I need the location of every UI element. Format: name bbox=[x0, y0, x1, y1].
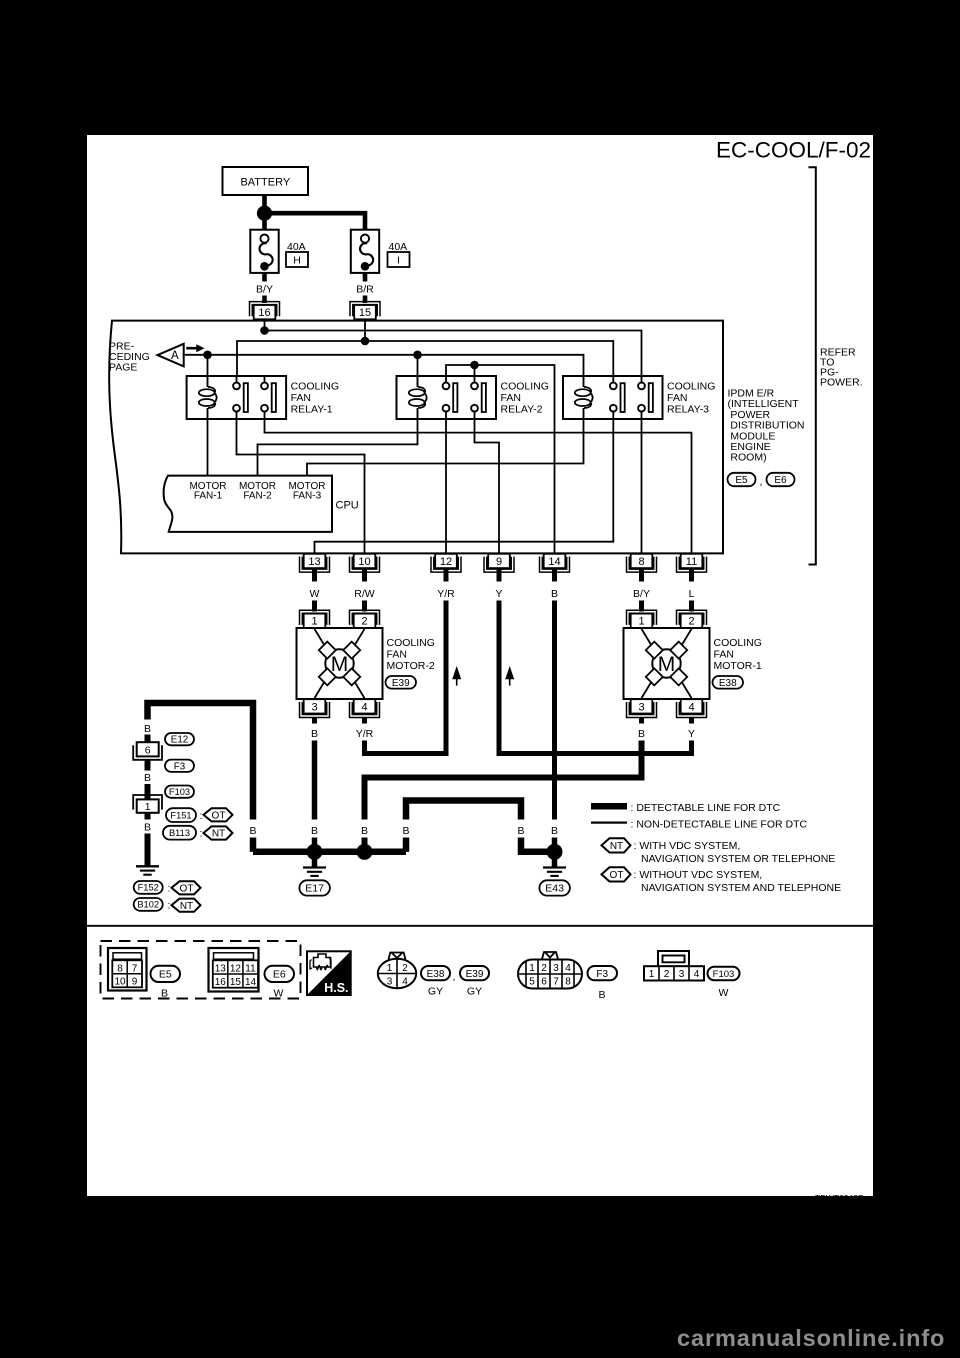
relay COOLING FAN RELAY-2 bbox=[397, 376, 549, 419]
wire motor-1 pin3 to riser x364.5 bbox=[365, 741, 642, 820]
relay COOLING FAN RELAY-3 bbox=[563, 376, 715, 419]
svg-text:6: 6 bbox=[541, 977, 547, 988]
node A-line junction relay-1 coil bbox=[203, 351, 212, 360]
wire stub E43 riser to dot bbox=[552, 838, 558, 852]
relay COOLING FAN RELAY-1 bbox=[187, 376, 339, 419]
wire B motor-1 pin3 to label bbox=[639, 717, 644, 724]
svg-text:E38: E38 bbox=[427, 969, 445, 980]
label wire color L bbox=[689, 588, 695, 600]
symbol NT for B102 bbox=[172, 899, 201, 912]
svg-text:4: 4 bbox=[694, 969, 700, 980]
svg-text::: : bbox=[200, 828, 203, 840]
wire B motor-2 pin3 to label bbox=[312, 717, 317, 724]
label wire color B at riser 406 bbox=[402, 825, 409, 837]
node A-line junction relay-2 coil bbox=[413, 351, 422, 360]
connector ref E5 bbox=[728, 473, 756, 486]
pin 1 of motor MOTOR-1 bbox=[627, 610, 657, 628]
svg-text::: : bbox=[168, 883, 171, 895]
wire pin15 bus to relay-3 contact1 bbox=[237, 319, 613, 383]
wire relay-1 coil to CPU MOTOR FAN-1 bbox=[207, 418, 209, 476]
connector face E6 bbox=[209, 948, 259, 992]
wire B/Y pin8 to label bbox=[639, 568, 644, 582]
battery bbox=[223, 167, 309, 195]
wire Y/R label to motor-2 pin4 bbox=[365, 601, 447, 754]
separator line bbox=[87, 925, 873, 927]
svg-text:Y: Y bbox=[495, 588, 502, 600]
svg-text:NAVIGATION SYSTEM OR TELEPHONE: NAVIGATION SYSTEM OR TELEPHONE bbox=[641, 853, 835, 865]
wire W label to motor-2 pin1 bbox=[312, 601, 317, 612]
svg-text:E39: E39 bbox=[392, 678, 410, 689]
svg-text:3: 3 bbox=[553, 963, 559, 974]
label wire color Y/R motor-2 pin4 bbox=[356, 728, 374, 740]
label wire color Y bbox=[495, 588, 502, 600]
connector ref E39 bbox=[386, 676, 417, 689]
svg-text:MOTOR-2: MOTOR-2 bbox=[387, 660, 435, 672]
svg-text:11: 11 bbox=[245, 963, 256, 974]
comma bbox=[760, 476, 763, 488]
legend detectable line bbox=[591, 802, 781, 814]
comma between E38 E39 bbox=[453, 971, 456, 983]
svg-text:E38: E38 bbox=[719, 678, 737, 689]
connector 1 (F103) bbox=[133, 795, 162, 813]
wire B pin14 to label bbox=[552, 568, 557, 582]
fuse H 40A bbox=[250, 230, 308, 273]
wire A-line to relay coils bbox=[185, 355, 584, 388]
svg-text:8: 8 bbox=[565, 977, 571, 988]
svg-text:1: 1 bbox=[145, 801, 151, 813]
wire fuse H to B/Y label bbox=[262, 273, 267, 282]
svg-text:2: 2 bbox=[361, 616, 367, 628]
svg-text:RELAY-1: RELAY-1 bbox=[291, 404, 333, 416]
connector pin 14 bbox=[540, 554, 570, 572]
label wire color B at motor-2 pin3 riser bbox=[311, 825, 318, 837]
wire B/Y label to motor-1 pin1 bbox=[639, 601, 644, 612]
svg-text:13: 13 bbox=[215, 963, 227, 974]
connector ref E5 bottom bbox=[151, 966, 181, 1000]
wire connector 1 to B label bbox=[145, 813, 151, 820]
wire relay-2 contact2 to pin 9 bbox=[475, 411, 500, 554]
symbol OT for F152 bbox=[172, 881, 201, 894]
connector view group E5/E6 dashed box bbox=[101, 941, 301, 999]
wire ground bus E17 bbox=[253, 849, 406, 856]
svg-text:1: 1 bbox=[311, 616, 317, 628]
svg-text:E6: E6 bbox=[774, 475, 787, 486]
svg-text:1: 1 bbox=[649, 969, 655, 980]
label wire color B at riser 364.5 bbox=[361, 825, 368, 837]
wire relay-1 contact2 to pin 11 bbox=[265, 411, 692, 554]
wire bus jog up-over bbox=[406, 801, 521, 820]
svg-text:3: 3 bbox=[387, 977, 393, 988]
svg-text:E39: E39 bbox=[466, 969, 484, 980]
symbol NT for B113 bbox=[204, 826, 233, 839]
label wire color B bbox=[551, 588, 558, 600]
label REFER TO PG-POWER bbox=[820, 347, 863, 389]
label wire color B mid chain bbox=[144, 772, 151, 784]
svg-text:I: I bbox=[397, 254, 400, 266]
svg-text:7: 7 bbox=[553, 977, 559, 988]
label CPU bbox=[336, 500, 359, 512]
bracket REFER TO PG-POWER bbox=[809, 167, 816, 564]
legend NT text bbox=[634, 840, 836, 865]
svg-text:MOTOR-1: MOTOR-1 bbox=[714, 660, 762, 672]
svg-text:1: 1 bbox=[387, 963, 393, 974]
connector ref E6 bbox=[767, 473, 795, 486]
label wire color B riser 253 bbox=[249, 825, 256, 837]
connector ref F103 bottom bbox=[708, 967, 740, 999]
svg-text:L: L bbox=[689, 588, 695, 600]
legend non-detectable line bbox=[591, 818, 807, 830]
svg-text:2: 2 bbox=[402, 963, 408, 974]
wire L pin11 to label bbox=[689, 568, 694, 582]
svg-text:E6: E6 bbox=[273, 969, 286, 981]
svg-text:B: B bbox=[311, 825, 318, 837]
svg-text:12: 12 bbox=[230, 963, 242, 974]
svg-text:F103: F103 bbox=[169, 787, 190, 797]
svg-text:TBWT0348E: TBWT0348E bbox=[815, 1193, 864, 1196]
node ground junction mid bbox=[357, 844, 373, 860]
ground F152/B102 bbox=[136, 866, 159, 874]
connector pin 12 bbox=[431, 554, 461, 572]
svg-text:B: B bbox=[402, 825, 409, 837]
svg-text:M: M bbox=[331, 653, 349, 676]
IPDM E/R box outline bbox=[109, 321, 723, 554]
svg-text:EC-COOL/F-02: EC-COOL/F-02 bbox=[716, 138, 871, 163]
svg-text:FAN: FAN bbox=[387, 649, 407, 661]
direction arrow Y bbox=[505, 666, 514, 686]
wire relay-2 contact tops to pin 14 bbox=[446, 365, 555, 554]
label wire color Y/R bbox=[437, 588, 455, 600]
connector ref F151 bbox=[166, 808, 202, 822]
label wire color B motor-1 bbox=[638, 728, 645, 740]
svg-text:: WITHOUT VDC SYSTEM,: : WITHOUT VDC SYSTEM, bbox=[634, 869, 763, 881]
svg-text:B: B bbox=[161, 988, 168, 1000]
svg-text:F103: F103 bbox=[713, 969, 735, 980]
svg-text:Y/R: Y/R bbox=[356, 728, 374, 740]
svg-text:8: 8 bbox=[638, 556, 644, 568]
svg-text:FAN-2: FAN-2 bbox=[243, 491, 272, 502]
legend OT text bbox=[634, 869, 842, 894]
svg-text:4: 4 bbox=[402, 977, 408, 988]
svg-text:BATTERY: BATTERY bbox=[240, 176, 290, 188]
svg-text:15: 15 bbox=[230, 977, 242, 988]
svg-text:E17: E17 bbox=[305, 883, 324, 895]
svg-text:A: A bbox=[171, 350, 179, 362]
svg-text:F3: F3 bbox=[596, 969, 608, 980]
wire Y label to motor-1 pin4 bbox=[499, 601, 692, 754]
svg-text:FAN: FAN bbox=[291, 392, 311, 404]
svg-text:B113: B113 bbox=[169, 828, 190, 838]
connector pin 15 bbox=[350, 302, 380, 320]
svg-text:PAGE: PAGE bbox=[109, 361, 137, 373]
svg-text:B: B bbox=[361, 825, 368, 837]
svg-text:NT: NT bbox=[212, 829, 225, 840]
direction arrow bbox=[186, 344, 204, 352]
direction arrow Y/R bbox=[452, 666, 461, 686]
wire relay-2 contact1 to pin 12 bbox=[445, 411, 447, 554]
svg-text:: NON-DETECTABLE LINE FOR DTC: : NON-DETECTABLE LINE FOR DTC bbox=[631, 818, 808, 830]
node pin16 bus junction bbox=[260, 326, 269, 335]
svg-text:W: W bbox=[719, 987, 729, 999]
svg-text:FAN-3: FAN-3 bbox=[293, 491, 322, 502]
wire riser 253 below label bbox=[250, 838, 257, 852]
svg-text:F3: F3 bbox=[174, 761, 186, 772]
svg-text:H: H bbox=[293, 254, 301, 266]
svg-text:: DETECTABLE LINE FOR DTC: : DETECTABLE LINE FOR DTC bbox=[631, 802, 781, 814]
wire B/Y to pin 16 bbox=[262, 296, 267, 304]
wire left chain elbow from riser 253 bbox=[148, 703, 254, 820]
svg-text:ROOM): ROOM) bbox=[728, 452, 767, 464]
svg-text:9: 9 bbox=[496, 556, 502, 568]
wire B label to B label above ground bbox=[552, 601, 557, 820]
legend symbol NT bbox=[602, 838, 631, 852]
svg-text:FAN: FAN bbox=[714, 649, 734, 661]
svg-text:14: 14 bbox=[548, 556, 560, 568]
connector pin 8 bbox=[627, 554, 657, 572]
node A from preceding page bbox=[158, 344, 184, 367]
svg-text:16: 16 bbox=[215, 977, 227, 988]
svg-text::: : bbox=[200, 810, 203, 822]
connector ref E39 bottom bbox=[460, 966, 489, 998]
svg-text:16: 16 bbox=[258, 307, 270, 319]
H.S. logo bbox=[307, 951, 351, 995]
label wire color R/W bbox=[354, 588, 375, 600]
svg-text:15: 15 bbox=[359, 307, 371, 319]
wire B label to connector 6 bbox=[145, 735, 151, 744]
svg-text:2: 2 bbox=[688, 616, 694, 628]
svg-text:B: B bbox=[517, 825, 524, 837]
svg-text:,: , bbox=[760, 476, 763, 488]
label wire color W bbox=[310, 588, 320, 600]
node battery junction bbox=[257, 206, 272, 221]
svg-text:7: 7 bbox=[132, 963, 138, 974]
node ground junction E17 bbox=[307, 844, 323, 860]
svg-text:E5: E5 bbox=[159, 969, 172, 981]
connector ref F103 left bbox=[165, 786, 194, 798]
pin 4 of motor MOTOR-2 bbox=[350, 699, 380, 717]
wire stub riser 364.5 to bus bbox=[362, 838, 368, 852]
symbol OT for F151 bbox=[204, 808, 233, 821]
wire R/W label to motor-2 pin2 bbox=[362, 601, 367, 612]
wire L label to motor-1 pin2 bbox=[689, 601, 694, 612]
legend symbol OT bbox=[602, 867, 631, 881]
connector ref F152 bbox=[134, 881, 171, 895]
wire motor-2 pin3 down to ground bus bbox=[312, 741, 318, 820]
wire junction to fuse H bbox=[262, 218, 267, 229]
connector face F3 bbox=[518, 952, 582, 989]
wire junction to fuse I bbox=[268, 213, 365, 229]
connector pin 16 bbox=[250, 302, 280, 320]
ground E17 bbox=[299, 858, 330, 896]
wire B label to connector 1 bbox=[145, 784, 151, 800]
wire fuse I to B/R label bbox=[363, 273, 368, 282]
wire connector 6 to B label bbox=[145, 760, 151, 771]
svg-text:CPU: CPU bbox=[336, 500, 359, 512]
svg-text:W: W bbox=[310, 588, 320, 600]
svg-text:10: 10 bbox=[358, 556, 370, 568]
svg-text:B: B bbox=[311, 728, 318, 740]
label wire color B at E43 riser bbox=[551, 825, 558, 837]
connector face F103 bbox=[644, 951, 704, 981]
svg-text:B: B bbox=[638, 728, 645, 740]
svg-text:NT: NT bbox=[610, 841, 623, 852]
label COOLING FAN MOTOR-1 bbox=[714, 637, 762, 672]
connector 6 (E12/F3) bbox=[133, 742, 162, 760]
svg-text:E12: E12 bbox=[171, 735, 188, 746]
svg-text:Y/R: Y/R bbox=[437, 588, 455, 600]
label wire color B at riser 521 bbox=[517, 825, 524, 837]
pin 3 of motor MOTOR-2 bbox=[300, 699, 330, 717]
label wire color B left chain top bbox=[144, 723, 151, 735]
label wire color B/Y bbox=[633, 588, 650, 600]
svg-text:11: 11 bbox=[686, 556, 697, 568]
svg-text:B/R: B/R bbox=[356, 283, 374, 295]
connector ref B102 bbox=[134, 898, 171, 912]
svg-text:F152: F152 bbox=[138, 883, 159, 893]
fuse I 40A bbox=[351, 230, 410, 273]
motor COOLING FAN MOTOR-1 E38 bbox=[624, 628, 710, 699]
node pin15 bus junction bbox=[361, 337, 370, 346]
svg-text:2: 2 bbox=[541, 963, 547, 974]
svg-text:9: 9 bbox=[132, 977, 138, 988]
wire W pin13 to label bbox=[312, 568, 317, 582]
svg-text:GY: GY bbox=[467, 986, 482, 998]
svg-text:COOLING: COOLING bbox=[714, 637, 762, 649]
svg-text:12: 12 bbox=[440, 556, 452, 568]
svg-text:COOLING: COOLING bbox=[387, 637, 435, 649]
label wire color B lower chain bbox=[144, 822, 151, 834]
connector pin 11 bbox=[677, 554, 707, 572]
svg-text:B: B bbox=[551, 588, 558, 600]
pin 2 of motor MOTOR-1 bbox=[677, 610, 707, 628]
svg-text:COOLING: COOLING bbox=[501, 381, 549, 393]
connector ref E38 bottom bbox=[421, 966, 450, 998]
wire battery to junction bbox=[262, 195, 267, 212]
wire Y pin9 to label bbox=[497, 568, 502, 582]
label wire color B/R bbox=[356, 283, 374, 295]
wire relay-3 contact2 to pin 8 bbox=[641, 411, 643, 554]
svg-text:: WITH VDC SYSTEM,: : WITH VDC SYSTEM, bbox=[634, 840, 741, 852]
connector ref E12 bbox=[165, 733, 194, 746]
svg-text:B: B bbox=[598, 989, 605, 1001]
svg-text:OT: OT bbox=[610, 870, 624, 881]
svg-text:,: , bbox=[453, 971, 456, 983]
wire relay-3 contact1 to pin 13 bbox=[315, 411, 614, 554]
connector ref F3 bottom bbox=[588, 966, 618, 1001]
connector pin 13 bbox=[300, 554, 330, 572]
svg-text:3: 3 bbox=[638, 701, 644, 713]
node ground junction E43 bbox=[547, 844, 563, 860]
svg-text:B: B bbox=[144, 723, 151, 735]
connector ref E38 bbox=[713, 676, 744, 689]
wire stub motor-2 riser to bus bbox=[312, 838, 318, 852]
label wire color B motor-2 bbox=[311, 728, 318, 740]
node relay-2 contact2 junction bbox=[470, 361, 479, 370]
svg-text:3: 3 bbox=[679, 969, 685, 980]
label COOLING FAN MOTOR-2 bbox=[387, 637, 435, 672]
svg-text:E5: E5 bbox=[735, 475, 748, 486]
svg-text:4: 4 bbox=[565, 963, 571, 974]
svg-text:14: 14 bbox=[245, 977, 257, 988]
wire Y/R pin12 to label bbox=[444, 568, 449, 582]
ground E43 bbox=[539, 858, 570, 896]
connector ref F3 left bbox=[165, 760, 194, 773]
wire relay-2 coil to CPU MOTOR FAN-2 bbox=[258, 418, 418, 476]
svg-text:H.S.: H.S. bbox=[324, 981, 348, 995]
wire B label to ground F152 bbox=[145, 834, 151, 866]
wire R/W pin10 to label bbox=[362, 568, 367, 582]
svg-text:1: 1 bbox=[638, 616, 644, 628]
svg-text:RELAY-3: RELAY-3 bbox=[667, 404, 709, 416]
connector face E5 bbox=[108, 948, 147, 991]
svg-text:13: 13 bbox=[308, 556, 320, 568]
svg-text:B102: B102 bbox=[137, 900, 159, 910]
svg-text:W: W bbox=[274, 988, 284, 1000]
svg-text:3: 3 bbox=[311, 701, 317, 713]
figure code bbox=[815, 1193, 864, 1203]
svg-text:M: M bbox=[658, 653, 676, 676]
label wire color Y motor-1 pin4 bbox=[688, 728, 695, 740]
svg-text:GY: GY bbox=[428, 986, 443, 998]
label PRECEDING PAGE bbox=[109, 341, 150, 374]
wire jog risers lower stubs and bus to E43 bbox=[406, 838, 555, 852]
svg-text:E43: E43 bbox=[545, 883, 564, 895]
svg-text:POWER.: POWER. bbox=[820, 377, 863, 389]
svg-text:B: B bbox=[144, 822, 151, 834]
CPU box bbox=[164, 476, 332, 532]
svg-text:FAN: FAN bbox=[501, 392, 521, 404]
svg-text:8: 8 bbox=[117, 963, 123, 974]
wire B/R to pin 15 bbox=[363, 296, 368, 304]
svg-text:B/Y: B/Y bbox=[256, 283, 273, 295]
svg-text:RELAY-2: RELAY-2 bbox=[501, 404, 543, 416]
label wire color B/Y bbox=[256, 283, 273, 295]
svg-text:B: B bbox=[249, 825, 256, 837]
wire relay-1 contact1 to pin 10 bbox=[237, 411, 365, 554]
pin 1 of motor MOTOR-2 bbox=[300, 610, 330, 628]
svg-text:COOLING: COOLING bbox=[667, 381, 715, 393]
svg-text:FAN: FAN bbox=[667, 392, 687, 404]
svg-text:5: 5 bbox=[529, 977, 535, 988]
svg-text:4: 4 bbox=[688, 701, 694, 713]
connector ref B113 bbox=[163, 826, 202, 840]
svg-text:R/W: R/W bbox=[354, 588, 375, 600]
pin 2 of motor MOTOR-2 bbox=[350, 610, 380, 628]
svg-text:OT: OT bbox=[212, 810, 226, 821]
connector pin 10 bbox=[350, 554, 380, 572]
wire pin16 bus to relay-3 contact2 bbox=[265, 319, 642, 382]
connector ref E6 bottom bbox=[265, 966, 295, 1000]
svg-text:B: B bbox=[144, 772, 151, 784]
svg-text::: : bbox=[168, 900, 171, 912]
pin 3 of motor MOTOR-1 bbox=[627, 699, 657, 717]
svg-text:OT: OT bbox=[180, 883, 194, 894]
svg-text:1: 1 bbox=[529, 963, 535, 974]
connector face E38/E39 bbox=[378, 953, 416, 989]
svg-text:F151: F151 bbox=[170, 810, 191, 820]
svg-text:Y: Y bbox=[688, 728, 695, 740]
svg-text:10: 10 bbox=[114, 977, 126, 988]
wire relay-3 coil to CPU MOTOR FAN-3 bbox=[307, 418, 584, 476]
svg-text:2: 2 bbox=[664, 969, 670, 980]
svg-text:FAN-1: FAN-1 bbox=[194, 491, 223, 502]
label IPDM E/R bbox=[728, 388, 805, 464]
svg-text:B: B bbox=[551, 825, 558, 837]
svg-text:4: 4 bbox=[361, 701, 367, 713]
pin 4 of motor MOTOR-1 bbox=[677, 699, 707, 717]
motor COOLING FAN MOTOR-2 E39 bbox=[297, 628, 383, 699]
svg-text:COOLING: COOLING bbox=[291, 381, 339, 393]
connector pin 9 bbox=[484, 554, 514, 572]
